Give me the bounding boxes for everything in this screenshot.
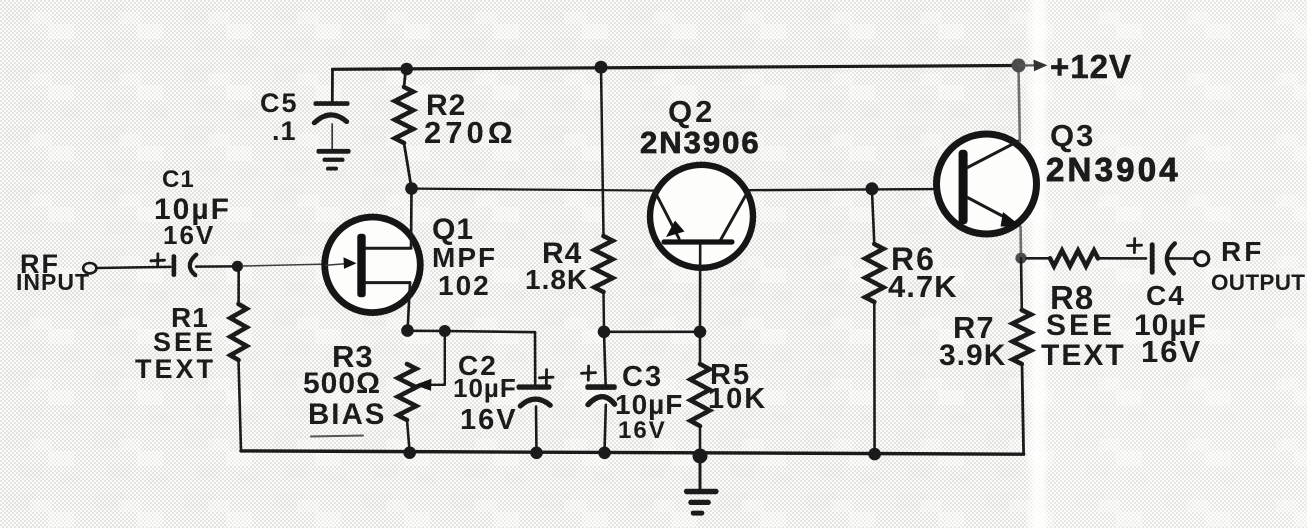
wire Q3 emitter down to node xyxy=(1019,227,1022,258)
wire bottom ground rail xyxy=(241,451,1024,454)
wire wiper node to C2 top xyxy=(445,331,535,332)
terminal RF output xyxy=(1195,252,1209,266)
label Q2 2N3906 xyxy=(640,94,761,160)
svg-text:2N3904: 2N3904 xyxy=(1046,151,1181,188)
terminal RF input xyxy=(83,263,96,273)
wire R8 to C4 xyxy=(1098,257,1146,260)
label R5 10K xyxy=(708,359,767,415)
label R2 270ohm xyxy=(424,89,517,150)
node R2 top on rail xyxy=(400,63,413,76)
wire R4 bottom lead to node xyxy=(602,292,605,332)
wire R4 top lead from rail xyxy=(601,67,604,236)
wire Q2-collector-to-Q3-base (y=189) xyxy=(749,189,959,190)
wire emitter node to R8 xyxy=(1027,257,1051,260)
transistor Q2 xyxy=(650,165,753,268)
svg-text:16V: 16V xyxy=(618,417,667,444)
node R6 bottom xyxy=(868,448,881,461)
wire top rail left end down to C5 xyxy=(331,69,334,102)
svg-text:OUTPUT: OUTPUT xyxy=(1211,270,1305,295)
svg-text:Q2: Q2 xyxy=(668,94,715,129)
wire C1 to input node xyxy=(196,265,234,268)
svg-text:TEXT: TEXT xyxy=(1041,339,1126,372)
node C2 bottom xyxy=(530,447,543,460)
svg-text:C4: C4 xyxy=(1146,280,1186,311)
svg-text:3.9K: 3.9K xyxy=(939,339,1006,372)
svg-text:1.8K: 1.8K xyxy=(525,264,588,295)
node ground junction xyxy=(693,449,708,464)
svg-text:BIAS: BIAS xyxy=(308,398,386,431)
label C4 10uF 16V xyxy=(1134,280,1207,369)
svg-text:C5: C5 xyxy=(260,88,299,118)
label Q3 2N3904 xyxy=(1046,118,1181,188)
svg-text:+12V: +12V xyxy=(1050,48,1132,85)
node R4/C3 junction xyxy=(598,326,611,339)
svg-text:C1: C1 xyxy=(162,166,195,193)
capacitor C1 xyxy=(151,254,196,277)
wire input terminal to C1 xyxy=(97,267,171,268)
wire R5 bottom lead xyxy=(699,426,702,454)
label R1 SEE TEXT xyxy=(135,302,216,384)
wire Q1 source down to node xyxy=(408,283,410,331)
node +12V xyxy=(1012,58,1026,72)
wire R3 bottom to rail xyxy=(407,420,410,453)
node R4 top on rail xyxy=(595,61,608,74)
wire top +12V rail xyxy=(333,66,1019,70)
wire C4 to output terminal xyxy=(1167,257,1194,260)
label C5 .1 xyxy=(260,88,299,146)
node R3 bottom xyxy=(403,446,416,459)
svg-text:RF: RF xyxy=(1221,236,1264,267)
node drain/R2 junction xyxy=(405,182,418,195)
label R7 3.9K xyxy=(939,310,1006,372)
svg-text:10µF: 10µF xyxy=(453,373,517,403)
resistor R3 (bias pot) xyxy=(398,364,416,420)
label R8 SEE TEXT xyxy=(1041,279,1126,372)
wire input-node to R1 to bottom rail (left vertical) xyxy=(237,265,240,304)
resistor R2 xyxy=(395,87,413,143)
wire R6 bottom lead xyxy=(873,302,876,454)
svg-text:SEE: SEE xyxy=(1046,309,1115,342)
label C1 10uF 16V xyxy=(154,166,231,250)
resistor R8 xyxy=(1050,251,1098,267)
svg-text:16V: 16V xyxy=(1141,334,1202,369)
wire Q2 base down xyxy=(699,244,702,331)
label RF OUTPUT xyxy=(1211,236,1305,295)
wire source node to wiper node xyxy=(408,329,445,332)
wire R5 top lead xyxy=(699,332,702,364)
label RF INPUT xyxy=(16,249,90,295)
resistor R5 xyxy=(690,364,709,426)
node wiper tap xyxy=(439,325,451,337)
svg-text:4.7K: 4.7K xyxy=(888,269,957,304)
wire Q1 drain up to node xyxy=(410,189,413,248)
wire emitter node to R7 xyxy=(1020,258,1023,310)
svg-text:.1: .1 xyxy=(272,116,297,146)
svg-text:102: 102 xyxy=(438,270,491,301)
svg-text:270Ω: 270Ω xyxy=(424,115,517,150)
svg-text:16V: 16V xyxy=(460,404,518,436)
pot wiper arrow into R3 xyxy=(415,331,445,391)
label R3 500ohm BIAS xyxy=(303,339,386,437)
wire R6 top lead xyxy=(872,189,874,244)
ground under C5 xyxy=(317,149,351,171)
transistor Q3 xyxy=(937,134,1037,234)
node R5/base junction xyxy=(694,326,707,339)
wire C2 bottom to rail xyxy=(535,407,538,453)
wire R7 bottom to rail (right vertical) xyxy=(1022,364,1024,454)
wire base node horizontal xyxy=(604,330,700,333)
svg-text:10µF: 10µF xyxy=(615,389,683,420)
svg-text:TEXT: TEXT xyxy=(135,354,216,384)
svg-text:2N3906: 2N3906 xyxy=(640,125,761,160)
wire mid drain-to-Q2 (y=189) xyxy=(413,189,656,191)
node input xyxy=(232,261,243,272)
label R6 4.7K xyxy=(888,241,957,304)
node source xyxy=(401,324,414,337)
transistor Q1 xyxy=(325,217,421,313)
resistor R1 xyxy=(230,304,246,360)
svg-text:MPF: MPF xyxy=(432,242,497,273)
wire gate (input node to Q1) xyxy=(243,264,345,266)
svg-text:Q3: Q3 xyxy=(1050,118,1095,153)
ground main symbol xyxy=(684,456,719,516)
capacitor C3 xyxy=(582,332,617,405)
svg-text:SEE: SEE xyxy=(153,327,216,357)
wire R2 bottom lead xyxy=(404,143,412,189)
resistor R7 xyxy=(1013,310,1031,364)
node C3 bottom xyxy=(598,447,611,460)
svg-text:INPUT: INPUT xyxy=(16,269,90,295)
label R4 1.8K xyxy=(525,237,588,295)
wire R2 top lead xyxy=(404,69,406,87)
capacitor C5 xyxy=(314,101,350,149)
svg-text:16V: 16V xyxy=(163,220,215,250)
label Q1 MPF 102 xyxy=(432,213,497,301)
label C2 10uF 16V xyxy=(453,350,518,436)
capacitor C4 xyxy=(1128,239,1175,275)
wire C3 bottom to rail xyxy=(605,405,606,453)
svg-text:10K: 10K xyxy=(708,383,767,415)
wire Q3 collector to +12V node xyxy=(1019,66,1020,141)
+12V arrow xyxy=(1019,60,1048,72)
resistor R6 xyxy=(865,244,883,302)
capacitor C2 xyxy=(517,370,554,406)
label C3 10uF 16V xyxy=(615,361,683,444)
resistor R4 xyxy=(594,236,612,292)
node emitter xyxy=(1015,253,1026,264)
node R6 top xyxy=(865,182,878,195)
svg-text:500Ω: 500Ω xyxy=(303,367,381,400)
